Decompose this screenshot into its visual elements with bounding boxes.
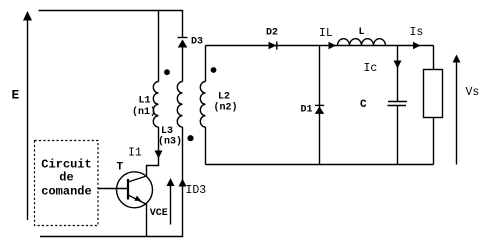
arrowhead E up	[23, 11, 32, 21]
arrowhead Ic down	[394, 61, 402, 69]
wire demagnetization column upper	[182, 11, 184, 38]
svg-text:Ic: Ic	[364, 62, 378, 75]
wire capacitor branch upper	[397, 46, 399, 102]
svg-text:Circuit: Circuit	[41, 157, 91, 171]
winding L1 (n1) primary	[153, 82, 158, 128]
diode D1 triangle	[315, 106, 324, 114]
svg-text:C: C	[360, 99, 367, 111]
winding L2 (n2) secondary	[200, 82, 205, 128]
svg-text:(n3): (n3)	[158, 135, 182, 147]
diode D2 triangle	[269, 42, 277, 50]
arrow VCE line	[170, 186, 172, 225]
svg-text:D2: D2	[266, 28, 278, 39]
wire load branch lower	[433, 118, 435, 165]
arrowhead Vs up	[453, 55, 461, 63]
diode D3 cathode bar	[178, 37, 188, 39]
svg-text:D1: D1	[301, 105, 313, 116]
wire D3 to winding	[182, 48, 184, 82]
dot L1 polarity	[164, 69, 170, 75]
transistor base bar	[127, 179, 129, 200]
wire emitter down	[146, 204, 148, 237]
svg-text:Vs: Vs	[466, 86, 480, 99]
wire load branch upper	[433, 46, 435, 70]
wire L3 to collector corner	[147, 127, 159, 176]
wire secondary bottom rail	[206, 164, 434, 166]
transistor emitter diagonal	[128, 195, 147, 204]
arrow Vs line	[456, 62, 458, 165]
arrowhead I1 down	[155, 151, 163, 159]
svg-text:I1: I1	[128, 146, 142, 159]
arrowhead IL right	[329, 42, 337, 49]
wire capacitor branch lower	[397, 106, 399, 165]
wire demagnetization column lower	[182, 127, 184, 236]
diode D3 triangle	[178, 39, 188, 47]
arrowhead emitter	[134, 196, 141, 201]
wire primary column upper	[158, 11, 160, 82]
svg-text:Is: Is	[410, 26, 424, 39]
arrowhead VCE up	[167, 178, 175, 186]
svg-text:de: de	[59, 170, 73, 184]
source E arrow	[27, 19, 29, 220]
dot L3 polarity	[187, 135, 193, 141]
svg-text:ID3: ID3	[186, 184, 207, 197]
wire top rail primary	[39, 10, 184, 12]
control box dashed	[35, 141, 99, 226]
svg-text:T: T	[117, 162, 124, 174]
wire D1 branch	[319, 46, 321, 165]
arrowhead Is right	[413, 42, 421, 49]
wire bottom rail primary	[40, 236, 183, 238]
svg-text:L: L	[359, 27, 365, 38]
resistor load rectangle	[424, 70, 443, 118]
winding L3 (n3) demagnetization	[177, 82, 182, 128]
wire secondary top rail	[206, 45, 434, 47]
transistor collector diagonal	[128, 176, 147, 182]
diode D2 cathode bar	[276, 41, 278, 49]
diode D1 cathode bar	[315, 104, 324, 106]
arrowhead ID3 up	[179, 179, 187, 187]
svg-text:E: E	[12, 87, 20, 102]
dot L2 polarity	[211, 67, 217, 73]
svg-text:comande: comande	[41, 185, 91, 199]
svg-text:(n2): (n2)	[214, 101, 238, 113]
wire base from control box to transistor	[98, 188, 129, 190]
wire secondary left lower	[205, 127, 207, 164]
wire secondary left upper	[205, 46, 207, 82]
svg-text:IL: IL	[319, 27, 333, 40]
svg-text:VCE: VCE	[150, 208, 168, 219]
svg-text:L1: L1	[139, 96, 151, 107]
capacitor C top plate	[388, 101, 407, 103]
svg-text:D3: D3	[191, 37, 203, 48]
transistor T circle	[117, 172, 153, 208]
svg-text:L2: L2	[218, 91, 230, 102]
capacitor C bottom plate	[388, 105, 407, 107]
svg-text:(n1): (n1)	[132, 106, 156, 118]
inductor L	[338, 39, 386, 46]
